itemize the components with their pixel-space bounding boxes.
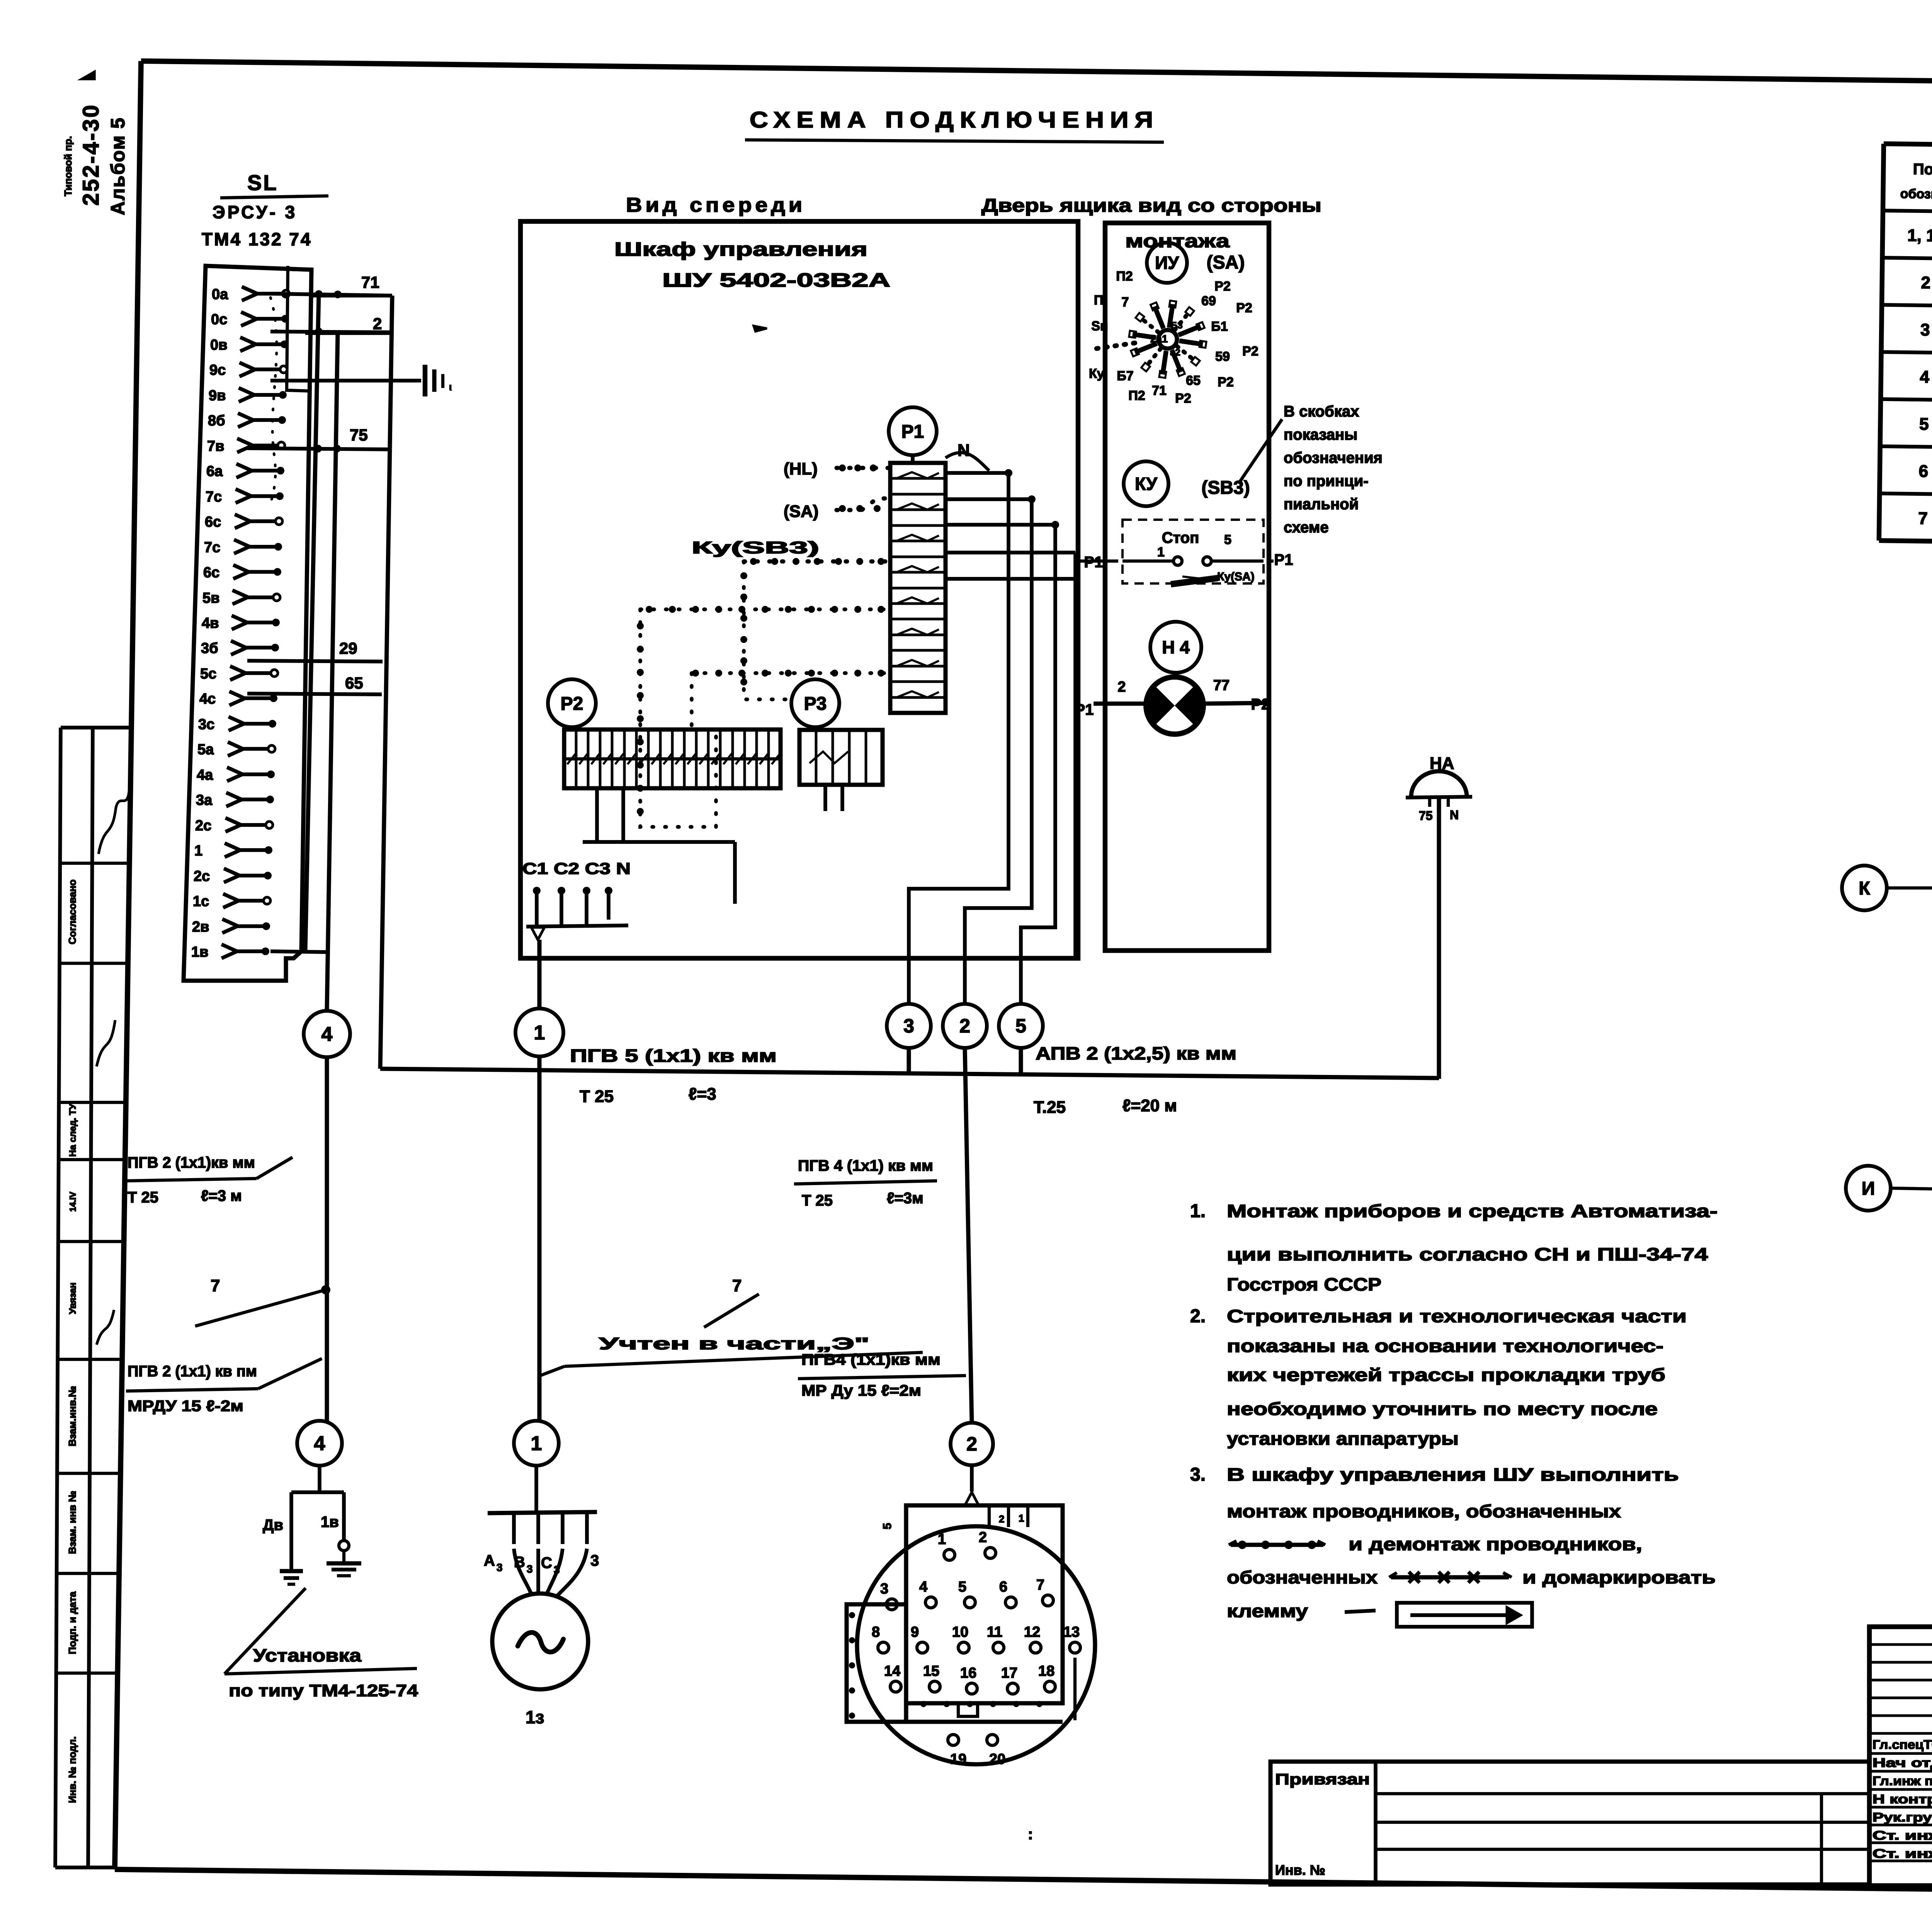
svg-text:Взам. инв №: Взам. инв № — [66, 1491, 78, 1554]
svg-text:Инв. №: Инв. № — [1275, 1862, 1325, 1878]
svg-text:необходимо уточнить по мес: необходимо уточнить по месту после — [1227, 1399, 1658, 1419]
svg-text:Типовой пр.: Типовой пр. — [62, 136, 74, 196]
svg-text:КУ: КУ — [1135, 474, 1158, 494]
svg-text:К: К — [1859, 878, 1870, 899]
svg-text:2: 2 — [959, 1015, 970, 1037]
svg-text:Р1: Р1 — [1274, 551, 1293, 568]
svg-text:Монтаж приборов и средств Авт: Монтаж приборов и средств Автоматиза- — [1227, 1201, 1718, 1221]
svg-text:ПГВ 5 (1х1) кв мм: ПГВ 5 (1х1) кв мм — [570, 1046, 777, 1066]
svg-text:ПГВ 2 (1х1)кв мм: ПГВ 2 (1х1)кв мм — [128, 1154, 255, 1171]
svg-text:65: 65 — [1186, 373, 1201, 388]
svg-text:Ст. инж: Ст. инж — [1872, 1828, 1932, 1842]
svg-text:11: 11 — [987, 1624, 1002, 1640]
svg-text:Учтен в части„Э": Учтен в части„Э" — [599, 1334, 869, 1353]
svg-text:клемму: клемму — [1227, 1601, 1308, 1621]
svg-text:ИУ: ИУ — [1155, 253, 1179, 273]
svg-text:2с: 2с — [195, 818, 211, 834]
svg-text:3: 3 — [527, 1563, 533, 1575]
svg-text:3а: 3а — [196, 792, 213, 808]
svg-text:19: 19 — [950, 1751, 966, 1767]
svg-text:Вид спереди: Вид спереди — [626, 194, 806, 216]
svg-text:2с: 2с — [194, 868, 210, 884]
svg-text:9: 9 — [911, 1624, 919, 1640]
svg-text:Согласовано: Согласовано — [66, 879, 78, 944]
svg-text:SL: SL — [247, 170, 278, 195]
svg-text:Взам.инв.№: Взам.инв.№ — [66, 1386, 78, 1446]
svg-text:показаны: показаны — [1284, 426, 1357, 443]
svg-text:8: 8 — [872, 1624, 880, 1640]
svg-text:6: 6 — [1918, 462, 1928, 481]
svg-text:10: 10 — [952, 1624, 968, 1640]
svg-text:показаны на основании техно: показаны на основании технологичес- — [1227, 1336, 1663, 1356]
svg-text:ℓ=3: ℓ=3 — [689, 1085, 716, 1104]
svg-text:Ку: Ку — [1089, 366, 1104, 381]
svg-text:20: 20 — [989, 1751, 1005, 1767]
svg-text:3: 3 — [1920, 320, 1930, 339]
svg-text:Дв: Дв — [263, 1517, 283, 1534]
svg-text:Инв. № подл.: Инв. № подл. — [66, 1736, 78, 1803]
svg-text:12: 12 — [1024, 1624, 1040, 1640]
svg-text:1: 1 — [1157, 545, 1165, 560]
svg-text:0в: 0в — [210, 337, 228, 353]
svg-text:Т 25: Т 25 — [128, 1189, 158, 1206]
svg-text:Т.25: Т.25 — [1034, 1098, 1066, 1117]
svg-text:установки аппаратуры: установки аппаратуры — [1227, 1429, 1459, 1449]
svg-text:Ст. инж: Ст. инж — [1872, 1847, 1932, 1861]
svg-text:2.: 2. — [1190, 1306, 1206, 1327]
svg-text:ПГВ4 (1х1)кв мм: ПГВ4 (1х1)кв мм — [801, 1351, 940, 1368]
svg-text:(SА): (SА) — [1207, 252, 1245, 273]
svg-text:65: 65 — [345, 674, 363, 692]
svg-text:59: 59 — [1215, 349, 1230, 364]
svg-text:Р1: Р1 — [901, 422, 924, 442]
svg-text:7: 7 — [732, 1276, 742, 1295]
svg-text:7: 7 — [1036, 1577, 1044, 1593]
svg-text:а2: а2 — [1170, 347, 1180, 358]
svg-text:Н контр.: Н контр. — [1872, 1792, 1932, 1806]
svg-text:Гл.спецТО: Гл.спецТО — [1872, 1738, 1932, 1752]
svg-text:пиальной: пиальной — [1284, 496, 1359, 513]
svg-text:Госстроя СССР: Госстроя СССР — [1227, 1274, 1381, 1294]
svg-text:3: 3 — [880, 1581, 888, 1597]
svg-text:6с: 6с — [205, 514, 221, 530]
svg-text:4: 4 — [1920, 367, 1930, 386]
svg-text:ТМ4 132 74: ТМ4 132 74 — [202, 229, 312, 249]
svg-text:1: 1 — [1019, 1512, 1024, 1524]
svg-text:МРДУ 15 ℓ-2м: МРДУ 15 ℓ-2м — [128, 1398, 243, 1415]
svg-text:Поз: Поз — [1913, 161, 1932, 178]
svg-text:2: 2 — [979, 1529, 987, 1546]
svg-text:ℓ=20 м: ℓ=20 м — [1122, 1096, 1177, 1115]
svg-text:14: 14 — [884, 1663, 900, 1679]
svg-text:Н 4: Н 4 — [1162, 637, 1190, 657]
svg-text:ПI: ПI — [1094, 293, 1107, 308]
svg-text:6а: 6а — [206, 463, 223, 480]
svg-text:252-4-30: 252-4-30 — [78, 104, 104, 206]
svg-text:Sп: Sп — [1091, 319, 1108, 333]
svg-text:N: N — [1450, 808, 1459, 822]
svg-text:ПГВ 4 (1х1) кв мм: ПГВ 4 (1х1) кв мм — [798, 1157, 933, 1174]
svg-text:3б: 3б — [201, 640, 218, 656]
svg-text:2: 2 — [966, 1433, 977, 1455]
svg-text:Ку(SА): Ку(SА) — [1217, 570, 1255, 583]
svg-text:и домаркировать: и домаркировать — [1522, 1567, 1716, 1587]
svg-text:3.: 3. — [1190, 1464, 1206, 1485]
svg-text:1с: 1с — [193, 893, 209, 910]
svg-text:5: 5 — [958, 1579, 966, 1595]
svg-text::: : — [1028, 1826, 1033, 1843]
svg-text:обознач: обознач — [1900, 187, 1932, 202]
svg-text:Привязан: Привязан — [1275, 1771, 1370, 1788]
svg-text:7в: 7в — [207, 438, 224, 454]
svg-text:5с: 5с — [200, 666, 216, 682]
svg-text:1: 1 — [938, 1531, 946, 1548]
svg-text:С: С — [541, 1554, 552, 1571]
svg-text:4: 4 — [314, 1432, 325, 1455]
svg-text:Т 25: Т 25 — [580, 1087, 614, 1106]
svg-text:9в: 9в — [209, 388, 226, 404]
svg-text:1, 1а: 1, 1а — [1907, 226, 1932, 245]
svg-text:Р2: Р2 — [1251, 696, 1270, 713]
svg-text:Гл.инж пр: Гл.инж пр — [1872, 1774, 1932, 1788]
svg-text:1: 1 — [531, 1432, 542, 1455]
svg-text:1: 1 — [194, 843, 202, 859]
svg-text:71: 71 — [361, 273, 379, 291]
svg-text:4с: 4с — [199, 691, 216, 707]
svg-text:5: 5 — [881, 1523, 894, 1529]
svg-text:ЭРСУ- 3: ЭРСУ- 3 — [213, 202, 297, 222]
svg-text:1в: 1в — [321, 1514, 339, 1531]
svg-text:N: N — [957, 441, 970, 460]
svg-text:А: А — [484, 1552, 495, 1569]
svg-text:Б7: Б7 — [1117, 369, 1133, 383]
svg-text:по принци-: по принци- — [1284, 473, 1369, 490]
svg-text:3: 3 — [497, 1561, 503, 1573]
svg-text:7: 7 — [1122, 295, 1129, 310]
svg-text:И: И — [1862, 1179, 1875, 1199]
svg-text:2: 2 — [1921, 273, 1930, 292]
svg-text:1в: 1в — [191, 944, 209, 960]
svg-text:Стоп: Стоп — [1162, 529, 1199, 546]
svg-text:1з: 1з — [526, 1707, 544, 1727]
svg-text:Ку(SВ3): Ку(SВ3) — [692, 538, 819, 557]
svg-text:3с: 3с — [198, 716, 214, 733]
svg-text:Нач отд: Нач отд — [1872, 1756, 1932, 1770]
svg-text:13: 13 — [1063, 1624, 1080, 1640]
svg-text:ШУ 5402-03В2А: ШУ 5402-03В2А — [662, 269, 890, 291]
svg-text:5в: 5в — [202, 590, 220, 606]
svg-text:2в: 2в — [192, 919, 209, 935]
svg-text:Установка: Установка — [253, 1645, 361, 1665]
svg-text:77: 77 — [1213, 677, 1230, 694]
svg-text:В скобках: В скобках — [1284, 403, 1359, 420]
svg-text:8б: 8б — [208, 413, 225, 429]
svg-text:5: 5 — [1919, 415, 1929, 434]
svg-text:обозначения: обозначения — [1284, 449, 1383, 466]
svg-text:Р2: Р2 — [1218, 375, 1234, 389]
svg-text:4в: 4в — [202, 615, 219, 631]
svg-text:2: 2 — [1117, 679, 1126, 695]
svg-text:ких чертежей трассы прокла: ких чертежей трассы прокладки труб — [1227, 1365, 1665, 1385]
svg-text:3: 3 — [590, 1552, 599, 1569]
svg-text:и демонтаж проводников,: и демонтаж проводников, — [1349, 1534, 1642, 1554]
svg-text:5а: 5а — [197, 742, 214, 758]
svg-text:6: 6 — [999, 1579, 1007, 1595]
svg-text:17: 17 — [1001, 1665, 1017, 1681]
svg-text:Р2: Р2 — [1175, 391, 1191, 406]
svg-text:Строительная и технологическа: Строительная и технологическая части — [1227, 1306, 1687, 1326]
svg-text:3: 3 — [903, 1015, 914, 1037]
svg-text:обозначенных: обозначенных — [1227, 1567, 1378, 1587]
svg-text:ι: ι — [449, 381, 452, 393]
svg-text:Р2: Р2 — [1236, 301, 1252, 315]
svg-text:Подп. и дата: Подп. и дата — [66, 1591, 78, 1654]
svg-text:Т 25: Т 25 — [802, 1192, 833, 1209]
svg-text:0а: 0а — [212, 286, 228, 303]
svg-text:1.: 1. — [1190, 1201, 1206, 1221]
svg-text:ции выполнить согласно СН и: ции выполнить согласно СН и ПШ-34-74 — [1227, 1244, 1708, 1264]
svg-text:75: 75 — [1419, 809, 1433, 823]
svg-text:Б1: Б1 — [1211, 319, 1228, 334]
svg-text:7с: 7с — [204, 539, 220, 556]
svg-text:2: 2 — [373, 315, 382, 333]
svg-text:С1 С2 С3 N: С1 С2 С3 N — [522, 859, 631, 878]
svg-text:4: 4 — [321, 1023, 333, 1046]
svg-text:П2: П2 — [1116, 269, 1133, 284]
svg-text:6с: 6с — [203, 565, 219, 581]
svg-text:ПГВ 2 (1х1) кв пм: ПГВ 2 (1х1) кв пм — [128, 1363, 257, 1380]
svg-text:0с: 0с — [211, 311, 227, 328]
svg-text:16: 16 — [960, 1665, 976, 1681]
svg-text:Р2: Р2 — [1214, 279, 1231, 294]
svg-text:1: 1 — [534, 1022, 545, 1044]
svg-text:29: 29 — [339, 639, 357, 657]
svg-text:СХЕМА ПОДКЛЮЧЕНИЯ: СХЕМА ПОДКЛЮЧЕНИЯ — [750, 107, 1159, 133]
svg-text:75: 75 — [350, 426, 368, 444]
svg-text:по типу ТМ4-125-74: по типу ТМ4-125-74 — [229, 1681, 418, 1700]
svg-text:5: 5 — [1224, 532, 1231, 547]
svg-text:69: 69 — [1201, 294, 1216, 308]
svg-text:Р1: Р1 — [1075, 701, 1094, 718]
svg-text:7: 7 — [1918, 509, 1928, 528]
svg-text:ℓ=3 м: ℓ=3 м — [201, 1187, 242, 1204]
svg-text:МР Ду 15 ℓ=2м: МР Ду 15 ℓ=2м — [801, 1382, 921, 1399]
svg-text:Увязан: Увязан — [68, 1282, 78, 1314]
svg-text:7с: 7с — [206, 489, 222, 505]
svg-text:(SA): (SA) — [784, 502, 818, 521]
svg-text:9с: 9с — [209, 362, 226, 378]
svg-text:4: 4 — [919, 1579, 927, 1595]
svg-text:18: 18 — [1038, 1663, 1054, 1679]
svg-text:4а: 4а — [197, 767, 213, 783]
svg-text:71: 71 — [1152, 383, 1167, 398]
svg-text:Рук.груп: Рук.груп — [1872, 1810, 1932, 1824]
svg-text:14.IV: 14.IV — [68, 1192, 78, 1212]
svg-text:2: 2 — [999, 1513, 1004, 1525]
svg-text:Альбом 5: Альбом 5 — [107, 117, 129, 215]
svg-text:В шкафу управления ШУ выпо: В шкафу управления ШУ выполнить — [1227, 1464, 1679, 1485]
svg-text:(SВ3): (SВ3) — [1201, 478, 1250, 498]
svg-text:5: 5 — [1015, 1015, 1026, 1037]
svg-text:монтаж проводников, обознач: монтаж проводников, обозначенных — [1227, 1501, 1621, 1521]
svg-text:На след. ТУ: На след. ТУ — [68, 1103, 78, 1156]
svg-text:ℓ=3м: ℓ=3м — [887, 1190, 923, 1207]
svg-text:7: 7 — [211, 1276, 220, 1295]
svg-text:Р2: Р2 — [561, 694, 583, 714]
svg-text:(НL): (НL) — [784, 459, 818, 478]
svg-text:Шкаф управления: Шкаф управления — [614, 238, 867, 260]
svg-text:схеме: схеме — [1284, 519, 1329, 536]
svg-text:Дверь ящика вид со стороны: Дверь ящика вид со стороны — [981, 196, 1321, 216]
svg-text:НА: НА — [1430, 754, 1454, 773]
svg-text:Р3: Р3 — [804, 694, 827, 714]
svg-text:2а1: 2а1 — [1150, 333, 1168, 345]
svg-text:15: 15 — [923, 1663, 939, 1679]
svg-text:Р2: Р2 — [1242, 344, 1259, 359]
svg-text:монтажа: монтажа — [1125, 231, 1230, 252]
svg-text:П2: П2 — [1128, 388, 1145, 403]
svg-text:Б3: Б3 — [1171, 320, 1183, 331]
svg-text:АПВ 2 (1х2,5) кв мм: АПВ 2 (1х2,5) кв мм — [1036, 1043, 1236, 1063]
